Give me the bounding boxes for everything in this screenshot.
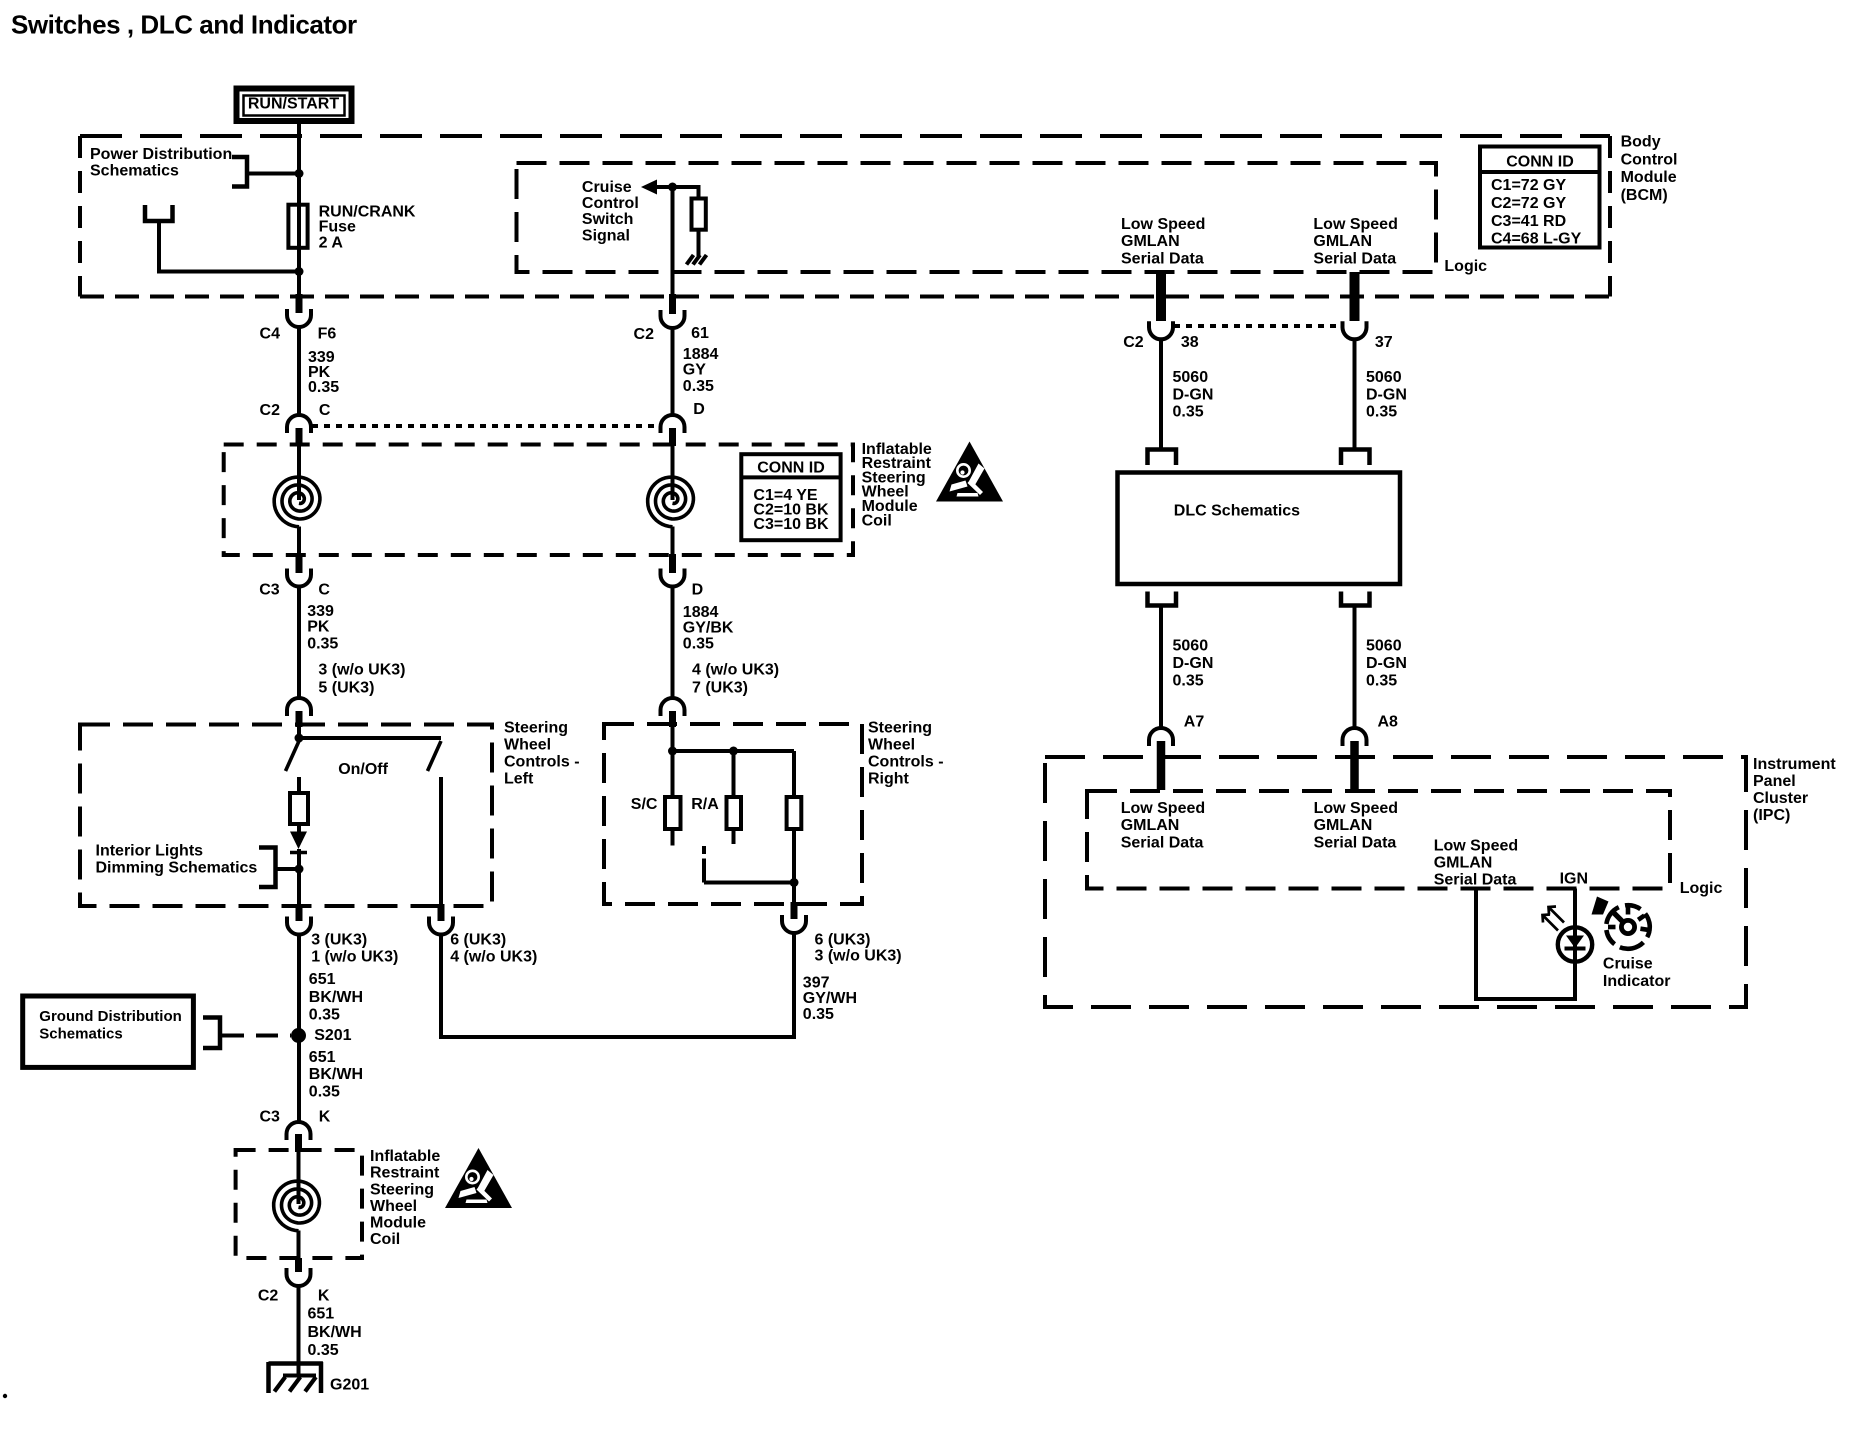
- svg-text:Power Distribution: Power Distribution: [90, 146, 232, 163]
- svg-text:7 (UK3): 7 (UK3): [692, 680, 748, 697]
- svg-text:GY/BK: GY/BK: [683, 620, 734, 637]
- svg-text:5060: 5060: [1366, 369, 1402, 386]
- svg-text:Controls -: Controls -: [504, 754, 580, 771]
- wire power distribution to RUN/CRANK feed: [247, 172, 299, 176]
- dotted connector pair line C-D: [312, 424, 661, 428]
- connector into SWC left dome: [287, 698, 311, 716]
- DLC Schematics box: [1118, 473, 1401, 585]
- junction SWC left: [295, 734, 304, 743]
- connector stub into SWC right: [669, 711, 676, 727]
- svg-text:C4: C4: [260, 326, 281, 343]
- svg-text:651: 651: [309, 971, 336, 988]
- resistor cruise pullup: [692, 199, 706, 230]
- wire to resistor third: [792, 751, 796, 797]
- svg-text:Steering: Steering: [504, 720, 568, 737]
- label Power Distribution Schematics: [90, 146, 232, 179]
- svg-text:Switches , DLC and Indicator: Switches , DLC and Indicator: [11, 10, 357, 40]
- svg-text:0.35: 0.35: [308, 379, 339, 396]
- gauge icon cruise indicator: [1606, 905, 1649, 949]
- wire 651 BK/WH lower: [297, 1286, 301, 1377]
- svg-text:Wheel: Wheel: [868, 737, 915, 754]
- svg-text:(IPC): (IPC): [1753, 807, 1790, 824]
- svg-text:GMLAN: GMLAN: [1314, 817, 1373, 834]
- label pins 6 (UK3) 3 (w/o UK3) right: [815, 931, 902, 964]
- label wire 339 PK 0.35 (upper): [308, 349, 339, 396]
- label A8: [1378, 714, 1399, 731]
- connector SWC left out B cup: [429, 917, 453, 935]
- svg-text:C4=68 L-GY: C4=68 L-GY: [1491, 231, 1582, 248]
- label wire 5060 D-GN 0.35 (right lower): [1366, 638, 1407, 690]
- svg-text:C: C: [319, 402, 331, 419]
- svg-text:1 (w/o UK3): 1 (w/o UK3): [311, 948, 398, 965]
- wire pullup to ground: [697, 230, 701, 256]
- wire SWC left entry: [297, 727, 301, 740]
- svg-text:0.35: 0.35: [309, 1084, 340, 1101]
- junction below fuse: [295, 267, 304, 276]
- wire 1884 GY: [671, 328, 675, 416]
- IPC logic inner dashed box: [1087, 791, 1670, 889]
- arrow dimmer wiper: [290, 832, 307, 853]
- wire below S/C resistor: [671, 829, 675, 846]
- wire SWC right to exit: [792, 883, 796, 907]
- svg-text:3 (w/o UK3): 3 (w/o UK3): [815, 947, 902, 964]
- label pin K upper: [319, 1109, 331, 1126]
- svg-text:Low Speed: Low Speed: [1314, 800, 1398, 817]
- ground G201 symbol: [269, 1362, 323, 1393]
- pointer bracket power distribution: [232, 157, 247, 187]
- svg-text:DLC Schematics: DLC Schematics: [1174, 503, 1300, 520]
- BCM module dashed boundary: [80, 136, 1610, 297]
- svg-text:A7: A7: [1184, 714, 1205, 731]
- wire SWC left B down: [439, 935, 443, 1040]
- wire dimmer to junction: [297, 849, 301, 908]
- svg-text:C3=10 BK: C3=10 BK: [753, 516, 829, 533]
- svg-text:Body: Body: [1621, 134, 1661, 151]
- svg-text:Logic: Logic: [1444, 258, 1487, 275]
- svg-text:0.35: 0.35: [683, 378, 714, 395]
- connector C4 terminal F6: [287, 309, 311, 327]
- svg-text:Interior Lights: Interior Lights: [96, 842, 204, 859]
- svg-text:RUN/START: RUN/START: [248, 96, 339, 113]
- label S201: [314, 1027, 351, 1044]
- resistor third: [787, 797, 802, 829]
- svg-text:0.35: 0.35: [1173, 404, 1204, 421]
- splice S201: [291, 1028, 306, 1043]
- svg-text:0.35: 0.35: [1173, 673, 1204, 690]
- label Body Control Module (BCM): [1621, 134, 1678, 204]
- svg-text:IGN: IGN: [1560, 871, 1588, 888]
- label IGN: [1560, 871, 1588, 888]
- wire pullup top: [697, 185, 701, 199]
- svg-text:4 (w/o UK3): 4 (w/o UK3): [692, 662, 779, 679]
- svg-text:Low Speed: Low Speed: [1121, 216, 1205, 233]
- label Inflatable Restraint Steering Wheel Module Coil (upper): [862, 441, 932, 530]
- connector stub C3 K: [295, 1134, 302, 1152]
- label C3 lower: [259, 1109, 280, 1126]
- svg-text:D-GN: D-GN: [1173, 655, 1214, 672]
- label pin C lower: [318, 581, 330, 598]
- svg-text:K: K: [318, 1288, 330, 1305]
- connector C2 terminal 61: [661, 310, 685, 328]
- svg-text:C2: C2: [634, 326, 655, 343]
- svg-text:C3: C3: [259, 581, 280, 598]
- svg-text:Schematics: Schematics: [39, 1025, 122, 1042]
- wire below left blade: [297, 777, 301, 793]
- wire dimmer resistor to arrow: [297, 824, 301, 836]
- wire arrow to pullup node: [655, 185, 699, 189]
- wire switch common: [704, 859, 794, 883]
- svg-text:0.35: 0.35: [307, 636, 338, 653]
- wire 651 BK/WH upper: [297, 935, 301, 1124]
- svg-text:S201: S201: [314, 1027, 351, 1044]
- svg-text:Indicator: Indicator: [1603, 973, 1671, 990]
- svg-text:BK/WH: BK/WH: [308, 1324, 362, 1341]
- label wire 397 GY/WH 0.35: [803, 975, 857, 1024]
- terminal bracket DLC bottom left: [1148, 592, 1177, 606]
- svg-text:Control: Control: [1621, 151, 1678, 168]
- connector C2 K cup: [287, 1268, 311, 1286]
- svg-text:GMLAN: GMLAN: [1434, 855, 1493, 872]
- connector stub C2 C: [296, 428, 303, 446]
- connector stub SWC left out B: [438, 904, 445, 921]
- label pins 3 (w/o UK3) 5 (UK3): [318, 662, 405, 697]
- svg-text:5 (UK3): 5 (UK3): [318, 680, 374, 697]
- label 61: [691, 325, 709, 342]
- BCM logic inner dashed box: [517, 163, 1437, 272]
- LED cruise indicator: [1558, 927, 1592, 962]
- wire cruise signal down: [671, 187, 675, 298]
- svg-text:C: C: [318, 581, 330, 598]
- clockspring coil right: [648, 477, 694, 527]
- wire join 397: [441, 1035, 794, 1039]
- svg-text:Serial Data: Serial Data: [1121, 834, 1204, 851]
- connector stub 38: [1156, 272, 1166, 321]
- label Steering Wheel Controls - Left: [504, 720, 580, 788]
- svg-text:61: 61: [691, 325, 709, 342]
- svg-text:GY: GY: [683, 362, 706, 379]
- svg-text:Module: Module: [370, 1215, 426, 1232]
- indicator select arrow: [1592, 897, 1609, 915]
- label Instrument Panel Cluster (IPC): [1753, 756, 1836, 824]
- fuse RUN/CRANK 2A: [288, 205, 307, 248]
- svg-text:BK/WH: BK/WH: [309, 1066, 363, 1083]
- label 37: [1375, 334, 1393, 351]
- Steering Wheel Controls Right dashed box: [604, 724, 862, 904]
- svg-text:Low Speed: Low Speed: [1434, 837, 1518, 854]
- svg-text:3 (UK3): 3 (UK3): [311, 932, 367, 949]
- connector stub BCM C2 61: [669, 294, 676, 314]
- svg-text:Serial Data: Serial Data: [1434, 872, 1517, 889]
- Steering Wheel Controls Left dashed box: [80, 725, 492, 907]
- svg-text:Restraint: Restraint: [370, 1165, 440, 1182]
- label C2: [260, 402, 281, 419]
- svg-text:Cruise: Cruise: [1603, 956, 1653, 973]
- svg-text:651: 651: [309, 1049, 336, 1066]
- wire logic output down: [1474, 889, 1478, 1002]
- resistor dimmer: [290, 793, 308, 824]
- svg-text:0.35: 0.35: [308, 1342, 339, 1359]
- connector stub D lower: [669, 554, 676, 573]
- connector stub C4 F6: [296, 294, 303, 313]
- svg-text:C3=41 RD: C3=41 RD: [1491, 213, 1566, 230]
- wire RUN/START down through BCM: [297, 124, 301, 298]
- svg-text:1884: 1884: [683, 604, 719, 621]
- label G201: [330, 1377, 369, 1394]
- label wire 5060 D-GN 0.35 (left upper): [1173, 369, 1214, 421]
- svg-text:37: 37: [1375, 334, 1393, 351]
- LED light arrows: [1543, 907, 1565, 931]
- svg-text:BK/WH: BK/WH: [309, 989, 363, 1006]
- wire to LED bottom: [1573, 960, 1577, 1001]
- label R/A: [691, 796, 719, 813]
- svg-text:Serial Data: Serial Data: [1314, 834, 1397, 851]
- svg-text:Inflatable: Inflatable: [370, 1148, 440, 1165]
- connector stub C3 C: [296, 554, 303, 573]
- svg-text:Steering: Steering: [370, 1181, 434, 1198]
- wire SWC left cross: [299, 736, 441, 740]
- svg-text:4 (w/o UK3): 4 (w/o UK3): [450, 948, 537, 965]
- svg-text:Panel: Panel: [1753, 773, 1796, 790]
- wire SWC right cross: [673, 749, 795, 753]
- wire out of coil right: [671, 527, 675, 557]
- terminal bracket DLC top left: [1148, 450, 1177, 466]
- label Cruise Indicator: [1603, 956, 1671, 991]
- junction SWC right B: [729, 747, 738, 756]
- svg-text:C2: C2: [1123, 334, 1144, 351]
- svg-text:S/C: S/C: [631, 796, 658, 813]
- svg-text:Cluster: Cluster: [1753, 790, 1808, 807]
- svg-text:651: 651: [308, 1305, 335, 1322]
- wire to resistor S/C: [671, 751, 675, 797]
- connector terminal A8 dome: [1343, 728, 1367, 746]
- svg-text:Instrument: Instrument: [1753, 756, 1836, 773]
- svg-text:0.35: 0.35: [803, 1006, 834, 1023]
- wire feed tap down: [157, 221, 161, 274]
- dotted connector pair line 38-37: [1174, 324, 1343, 328]
- wire 5060 D-GN right lower: [1353, 606, 1357, 730]
- wire LED to IGN: [1573, 889, 1577, 930]
- svg-text:0.35: 0.35: [1366, 404, 1397, 421]
- svg-text:Steering: Steering: [868, 720, 932, 737]
- label Low Speed GMLAN Serial Data (BCM left): [1121, 216, 1205, 267]
- label 38: [1181, 334, 1199, 351]
- junction at fuse feed: [295, 169, 304, 178]
- wire 339 PK: [297, 327, 301, 416]
- svg-text:Right: Right: [868, 771, 910, 788]
- wire 397 GY/WH down: [792, 933, 796, 1039]
- svg-text:G201: G201: [330, 1377, 369, 1394]
- svg-text:Cruise: Cruise: [582, 179, 632, 196]
- connector stub 37: [1350, 272, 1360, 321]
- Inflatable Restraint SWM Coil dashed box (upper): [224, 445, 853, 556]
- pointer bracket interior lights: [259, 848, 276, 888]
- svg-text:D-GN: D-GN: [1366, 655, 1407, 672]
- switch blade right On/Off: [428, 741, 442, 771]
- svg-text:Wheel: Wheel: [370, 1198, 417, 1215]
- label C3: [259, 581, 280, 598]
- wire out of coil 2: [297, 1231, 301, 1261]
- wire 339 PK lower: [297, 587, 301, 700]
- svg-text:Serial Data: Serial Data: [1313, 250, 1396, 267]
- wire 5060 D-GN left lower: [1159, 606, 1163, 730]
- Inflatable Restraint SWM Coil dashed box (lower): [236, 1150, 362, 1258]
- connector stub SWC right out: [791, 902, 798, 919]
- feed tap cup symbol: [145, 205, 173, 221]
- wire 1884 GY/BK: [671, 587, 675, 700]
- svg-text:Serial Data: Serial Data: [1121, 250, 1204, 267]
- svg-text:CONN ID: CONN ID: [1506, 154, 1574, 171]
- svg-text:C3: C3: [259, 1109, 280, 1126]
- svg-text:38: 38: [1181, 334, 1199, 351]
- svg-text:5060: 5060: [1173, 638, 1209, 655]
- connector SWC left out A cup: [287, 917, 311, 935]
- junction interior lights tap: [295, 865, 304, 874]
- svg-text:1884: 1884: [683, 346, 719, 363]
- connector terminal A7 dome: [1149, 728, 1173, 746]
- svg-text:6 (UK3): 6 (UK3): [815, 931, 871, 948]
- svg-text:D: D: [693, 401, 705, 418]
- warning triangle airbag (upper): [936, 442, 1003, 502]
- svg-text:Low Speed: Low Speed: [1121, 800, 1205, 817]
- svg-text:Fuse: Fuse: [319, 219, 356, 236]
- switch blade left On/Off: [286, 741, 300, 771]
- connector SWC right out cup: [782, 915, 806, 933]
- svg-text:GMLAN: GMLAN: [1313, 233, 1372, 250]
- label F6: [318, 326, 337, 343]
- clockspring coil left: [274, 477, 320, 527]
- label On/Off: [338, 761, 388, 778]
- dashed link to S201: [222, 1034, 291, 1038]
- label Low Speed GMLAN Serial Data (IPC left): [1121, 800, 1205, 851]
- svg-text:Control: Control: [582, 195, 639, 212]
- svg-text:Low Speed: Low Speed: [1313, 216, 1397, 233]
- svg-text:C2: C2: [260, 402, 281, 419]
- switch contact tick: [702, 846, 706, 854]
- label pins 3 (UK3) 1 (w/o UK3): [311, 932, 398, 966]
- wire indicator bottom: [1474, 997, 1575, 1001]
- svg-text:C1=72 GY: C1=72 GY: [1491, 177, 1566, 194]
- svg-text:339: 339: [307, 603, 334, 620]
- label pin D lower: [692, 581, 704, 598]
- svg-text:C2: C2: [258, 1288, 279, 1305]
- label wire 1884 GY/BK 0.35: [683, 604, 734, 652]
- warning triangle airbag (lower): [445, 1148, 512, 1208]
- wire below third resistor: [792, 829, 796, 885]
- connector terminal 38: [1149, 321, 1173, 339]
- label S/C: [631, 796, 658, 813]
- connector terminal D cup: [661, 569, 685, 587]
- svg-text:On/Off: On/Off: [338, 761, 388, 778]
- svg-text:Controls -: Controls -: [868, 754, 944, 771]
- connector C2 terminal C dome: [287, 415, 311, 433]
- clockspring coil lower: [274, 1181, 320, 1231]
- label C2 (GMLAN): [1123, 334, 1144, 351]
- label Low Speed GMLAN Serial Data (IPC right): [1314, 800, 1398, 851]
- svg-text:CONN ID: CONN ID: [757, 460, 825, 477]
- label wire 339 PK 0.35 (lower): [307, 603, 338, 653]
- wire into coil left: [297, 446, 301, 500]
- label C4: [260, 326, 281, 343]
- title: Switches , DLC and Indicator: [11, 10, 357, 40]
- arrow cruise control signal: [641, 180, 657, 195]
- svg-text:Ground Distribution: Ground Distribution: [39, 1008, 181, 1025]
- wire feed tap to main: [159, 270, 299, 274]
- wire 5060 D-GN left upper: [1159, 340, 1163, 452]
- label C2 lower: [258, 1288, 279, 1305]
- stray mark: [3, 1394, 7, 1398]
- svg-text:D-GN: D-GN: [1366, 386, 1407, 403]
- svg-text:5060: 5060: [1366, 638, 1402, 655]
- connector C3 terminal C: [287, 569, 311, 587]
- wire right switch down: [439, 777, 443, 908]
- Ground Distribution Schematics box: [23, 996, 194, 1067]
- label wire 5060 D-GN 0.35 (right upper): [1366, 369, 1407, 421]
- connector stub D: [669, 428, 676, 446]
- svg-text:K: K: [319, 1109, 331, 1126]
- svg-text:6 (UK3): 6 (UK3): [450, 932, 506, 949]
- power feed box RUN/START: [237, 89, 352, 122]
- connector terminal D dome: [661, 415, 685, 433]
- connector into SWC right dome: [661, 698, 685, 716]
- svg-text:A8: A8: [1378, 714, 1399, 731]
- terminal bracket DLC top right: [1341, 450, 1370, 466]
- label C2 (cruise): [634, 326, 655, 343]
- wire interior lights tap: [276, 867, 300, 871]
- connector stub C2 K: [295, 1258, 302, 1272]
- label Logic (BCM): [1444, 258, 1487, 275]
- wire into coil 2: [297, 1152, 301, 1204]
- junction SWC right out: [790, 878, 799, 887]
- label Low Speed GMLAN Serial Data (BCM right): [1313, 216, 1397, 267]
- junction SWC right A: [668, 747, 677, 756]
- terminal bracket DLC bottom right: [1341, 592, 1370, 606]
- ground chassis (BCM internal): [687, 255, 707, 265]
- svg-text:Dimming Schematics: Dimming Schematics: [96, 859, 258, 876]
- svg-text:0.35: 0.35: [1366, 673, 1397, 690]
- svg-text:GMLAN: GMLAN: [1121, 817, 1180, 834]
- wire below R/A resistor: [732, 829, 736, 844]
- label wire 1884 GY 0.35: [683, 346, 719, 395]
- label Low Speed GMLAN Serial Data (IPC logic): [1434, 837, 1518, 888]
- svg-text:Left: Left: [504, 771, 534, 788]
- svg-text:Module: Module: [1621, 169, 1677, 186]
- label Inflatable Restraint Steering Wheel Module Coil (lower): [370, 1148, 440, 1248]
- label wire 651 BK/WH 0.35 (lower): [308, 1305, 362, 1358]
- svg-text:D-GN: D-GN: [1173, 386, 1214, 403]
- svg-text:GMLAN: GMLAN: [1121, 233, 1180, 250]
- svg-text:0.35: 0.35: [309, 1007, 340, 1024]
- label wire 651 BK/WH 0.35 (upper): [309, 971, 363, 1024]
- wire 5060 D-GN right upper: [1353, 340, 1357, 452]
- label pins 6 (UK3) 4 (w/o UK3): [450, 932, 537, 966]
- svg-text:C2=72 GY: C2=72 GY: [1491, 195, 1566, 212]
- pointer bracket ground distribution: [203, 1018, 220, 1049]
- connector stub SWC left out A: [296, 904, 303, 921]
- svg-text:Logic: Logic: [1680, 880, 1723, 897]
- CONN ID table BCM: [1480, 147, 1600, 248]
- svg-text:R/A: R/A: [691, 796, 719, 813]
- svg-text:GY/WH: GY/WH: [803, 990, 857, 1007]
- IPC outer dashed box: [1045, 757, 1746, 1007]
- label wire 5060 D-GN 0.35 (left lower): [1173, 638, 1214, 690]
- svg-text:Wheel: Wheel: [504, 737, 551, 754]
- label Steering Wheel Controls - Right: [868, 720, 944, 788]
- svg-text:397: 397: [803, 975, 830, 992]
- svg-text:3 (w/o UK3): 3 (w/o UK3): [318, 662, 405, 679]
- connector terminal 37: [1343, 321, 1367, 339]
- svg-text:D: D: [692, 581, 704, 598]
- svg-text:2 A: 2 A: [319, 235, 344, 252]
